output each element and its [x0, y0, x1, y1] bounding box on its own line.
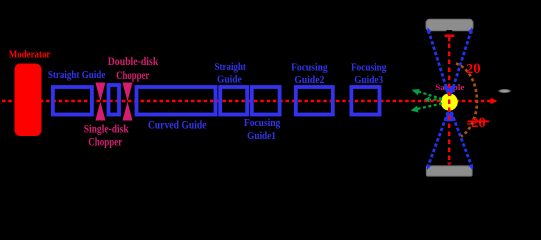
detector top	[426, 19, 473, 30]
arrowhead at sample bottom (right line)	[447, 111, 456, 122]
guide straight 2	[220, 87, 247, 115]
arrowhead green up-left	[412, 89, 420, 95]
svg-text:Double-disk: Double-disk	[108, 56, 159, 68]
guide focusing 2	[296, 87, 333, 115]
guide focusing 3	[351, 87, 379, 115]
chopper double-disk bowtie	[123, 83, 133, 121]
svg-text:Moderator: Moderator	[9, 50, 51, 61]
svg-text:Curved Guide: Curved Guide	[148, 119, 207, 131]
arrowhead at sample top (right line)	[447, 86, 456, 97]
wire scattered path sample to top detector right (blue dashed)	[452, 31, 471, 92]
wire scattered green arrow down-left	[417, 104, 442, 110]
arrowhead at sample top (left line)	[444, 86, 453, 97]
svg-text:Guide: Guide	[217, 73, 242, 85]
arrowhead at top detector left corner	[427, 27, 432, 33]
svg-text:2θ: 2θ	[466, 62, 481, 77]
detector bottom	[426, 166, 472, 176]
wire scattered path sample to top detector left (blue dashed)	[429, 31, 448, 92]
arrowhead at bottom detector left corner	[427, 164, 432, 170]
wire scattered green arrow left	[430, 98, 442, 100]
wire scattered path sample to bottom detector left (blue dashed)	[428, 112, 448, 166]
beam stop ellipse	[497, 89, 512, 94]
arrowhead green left	[424, 96, 429, 102]
arrowhead down at bottom detector	[447, 162, 452, 166]
svg-text:Focusing: Focusing	[351, 61, 387, 73]
strike line through -2theta	[468, 120, 490, 122]
arrowhead at bottom detector right corner	[468, 164, 473, 170]
guide G1 straight	[53, 87, 92, 115]
svg-text:Guide2: Guide2	[294, 74, 324, 86]
svg-text:Single-disk: Single-disk	[84, 124, 129, 136]
beam axis arrowhead	[491, 98, 498, 104]
svg-text:Chopper: Chopper	[88, 136, 122, 148]
wire beam axis (red dashed)	[2, 100, 491, 102]
arrowhead at top detector right corner	[468, 27, 473, 33]
arrowhead up (T-bar) at top detector	[445, 35, 455, 37]
arrowhead green down-left	[411, 106, 419, 113]
wire scattered path sample to bottom detector right (blue dashed)	[451, 112, 471, 166]
arrowhead at sample bottom (left line)	[444, 111, 453, 122]
wire detector axis vertical (red dashed)	[448, 44, 450, 162]
svg-text:Straight Guide: Straight Guide	[48, 70, 106, 81]
wire 2theta arc (orange dashed)	[456, 64, 477, 137]
svg-text:Guide3: Guide3	[354, 74, 383, 86]
svg-text:Guide1: Guide1	[247, 130, 276, 142]
guide curved	[137, 87, 216, 115]
sample	[441, 93, 458, 110]
svg-text:Focusing: Focusing	[291, 61, 328, 73]
moderator	[15, 64, 42, 137]
svg-text:Chopper: Chopper	[116, 70, 149, 82]
guide focusing 1	[252, 87, 280, 115]
svg-text:Straight: Straight	[215, 61, 247, 73]
svg-text:Focusing: Focusing	[244, 117, 281, 129]
wire scattered green arrow up-left	[418, 92, 442, 100]
guide small between choppers	[109, 85, 120, 115]
chopper single-disk bowtie	[95, 83, 105, 121]
svg-text:-2θ: -2θ	[466, 116, 486, 131]
notch on top detector bottom edge	[446, 30, 452, 32]
